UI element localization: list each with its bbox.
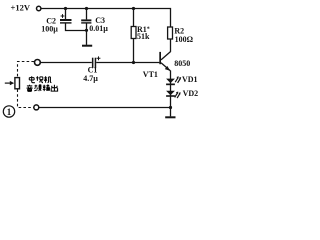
svg-text:VD1: VD1 <box>182 75 198 84</box>
svg-text:VD2: VD2 <box>183 89 199 98</box>
svg-text:100Ω: 100Ω <box>175 35 194 44</box>
svg-text:8050: 8050 <box>174 59 190 68</box>
svg-text:4.7µ: 4.7µ <box>83 74 98 83</box>
svg-text:+12V: +12V <box>11 2 31 12</box>
svg-text:1: 1 <box>7 107 12 117</box>
svg-text:0.01µ: 0.01µ <box>89 24 108 33</box>
svg-text:100µ: 100µ <box>41 25 58 34</box>
svg-text:51k: 51k <box>137 32 150 41</box>
svg-text:VT1: VT1 <box>143 70 158 79</box>
